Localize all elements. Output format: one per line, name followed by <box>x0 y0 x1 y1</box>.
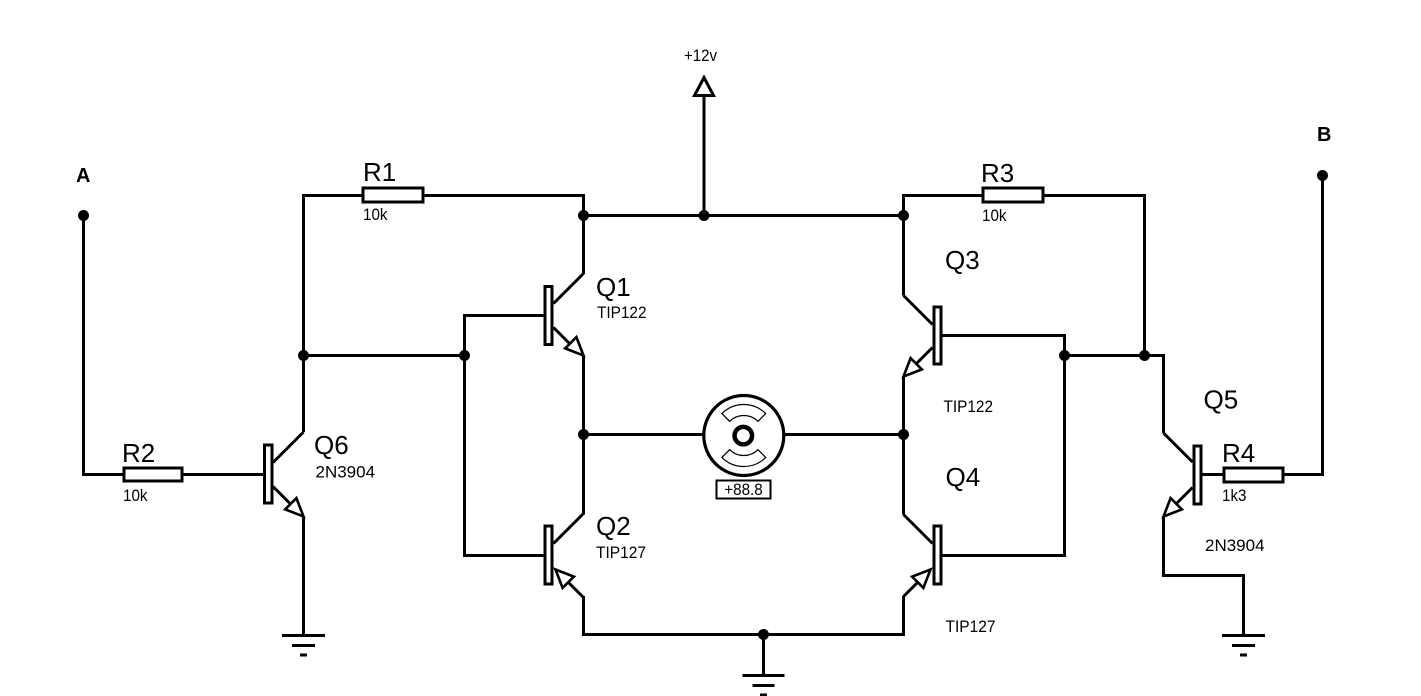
transistor Q4 <box>904 515 942 597</box>
ground under Q6 <box>282 636 325 656</box>
junction dot motor right <box>898 429 909 440</box>
wire R2 to Q6 base <box>182 473 264 476</box>
wire A down and right to R2 <box>84 216 125 475</box>
power +12v symbol <box>695 78 714 216</box>
svg-text:R1: R1 <box>363 157 396 187</box>
junction dot rail center <box>699 210 710 221</box>
motor display box <box>717 481 771 499</box>
resistor R3 <box>983 188 1043 202</box>
svg-text:10k: 10k <box>363 205 388 224</box>
wire R1 right to +12v rail <box>423 196 584 217</box>
wire R3 right down to base node <box>1042 196 1145 356</box>
wire Q1 emitter to Q2 collector <box>582 356 585 515</box>
wire motor right <box>785 433 904 436</box>
svg-text:TIP127: TIP127 <box>946 617 996 636</box>
svg-text:Q4: Q4 <box>946 462 981 492</box>
junction dot Q1/Q2 base node <box>459 350 470 361</box>
svg-text:Q2: Q2 <box>596 511 631 541</box>
junction dot rail right <box>898 210 909 221</box>
wire Q2 emitter to bottom rail to Q4 emitter <box>584 596 904 635</box>
svg-text:+88.8: +88.8 <box>724 480 763 499</box>
svg-text:B: B <box>1317 124 1331 146</box>
wire R1 left to Q6 collector <box>304 196 364 433</box>
wire base link right to Q5 collector <box>1065 356 1164 434</box>
svg-text:A: A <box>76 165 90 187</box>
svg-text:TIP122: TIP122 <box>944 397 994 416</box>
transistor Q3 <box>904 216 942 377</box>
resistor R1 <box>363 188 423 202</box>
resistor R4 <box>1224 468 1283 482</box>
wire motor left <box>584 433 704 436</box>
ground center stem <box>762 635 765 676</box>
svg-text:R3: R3 <box>981 158 1014 188</box>
transistor Q1 <box>545 216 584 356</box>
node B terminal dot <box>1317 170 1328 181</box>
transistor Q2 <box>545 514 584 598</box>
junction dot R3 bottom node <box>1139 350 1150 361</box>
motor M1 <box>704 396 784 476</box>
svg-text:Q5: Q5 <box>1204 385 1239 415</box>
junction dot Q3/Q4 base node <box>1059 350 1070 361</box>
transistor Q6 <box>265 432 304 517</box>
svg-text:10k: 10k <box>982 206 1007 225</box>
wire Q1 base / Q2 base vertical <box>465 316 546 556</box>
svg-text:Q6: Q6 <box>314 430 349 460</box>
svg-text:Q3: Q3 <box>945 245 980 275</box>
svg-text:R4: R4 <box>1222 438 1255 468</box>
wire Q3 emitter to Q4 collector <box>902 377 905 515</box>
wire base link left <box>304 354 465 357</box>
junction dot R1/Q6 node <box>298 350 309 361</box>
wire Q3 base / Q4 base vertical <box>943 336 1065 556</box>
svg-text:1k3: 1k3 <box>1222 486 1247 505</box>
svg-text:R2: R2 <box>122 438 155 468</box>
node A terminal dot <box>78 210 89 221</box>
ground under Q5 <box>1222 636 1265 656</box>
+12v rail <box>584 214 904 217</box>
svg-text:TIP127: TIP127 <box>596 543 646 562</box>
wire R3 left to rail <box>904 196 984 217</box>
svg-text:+12v: +12v <box>684 46 717 65</box>
junction dot bottom center <box>758 629 769 640</box>
junction dot motor left <box>578 429 589 440</box>
resistor R2 <box>124 468 182 481</box>
transistor Q5 <box>1164 433 1202 517</box>
wire R4 right to node B <box>1283 176 1323 475</box>
ground center <box>743 676 785 696</box>
svg-text:Q1: Q1 <box>596 272 631 302</box>
svg-text:2N3904: 2N3904 <box>1205 536 1265 555</box>
junction dot rail left <box>578 210 589 221</box>
svg-text:2N3904: 2N3904 <box>316 463 376 482</box>
wire Q5 base to R4 <box>1203 473 1225 476</box>
wire Q5 emitter to ground <box>1164 517 1244 636</box>
wire Q6 emitter to ground <box>302 517 305 636</box>
svg-text:TIP122: TIP122 <box>597 303 647 322</box>
svg-text:10k: 10k <box>123 486 148 505</box>
